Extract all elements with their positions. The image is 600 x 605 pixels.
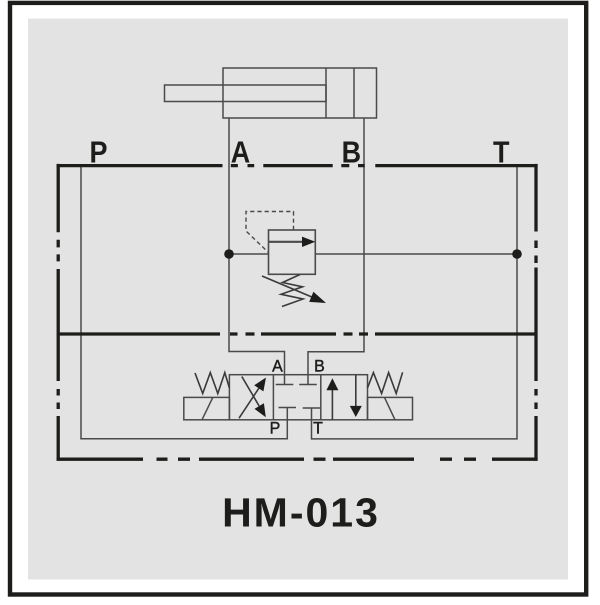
svg-text:B: B xyxy=(342,136,361,170)
svg-text:P: P xyxy=(270,419,281,437)
svg-text:A: A xyxy=(272,357,283,375)
svg-text:P: P xyxy=(90,136,108,170)
svg-text:A: A xyxy=(231,136,250,170)
svg-text:HM-013: HM-013 xyxy=(222,489,380,535)
svg-text:T: T xyxy=(493,136,510,170)
svg-text:B: B xyxy=(314,357,325,375)
svg-text:T: T xyxy=(313,419,323,437)
